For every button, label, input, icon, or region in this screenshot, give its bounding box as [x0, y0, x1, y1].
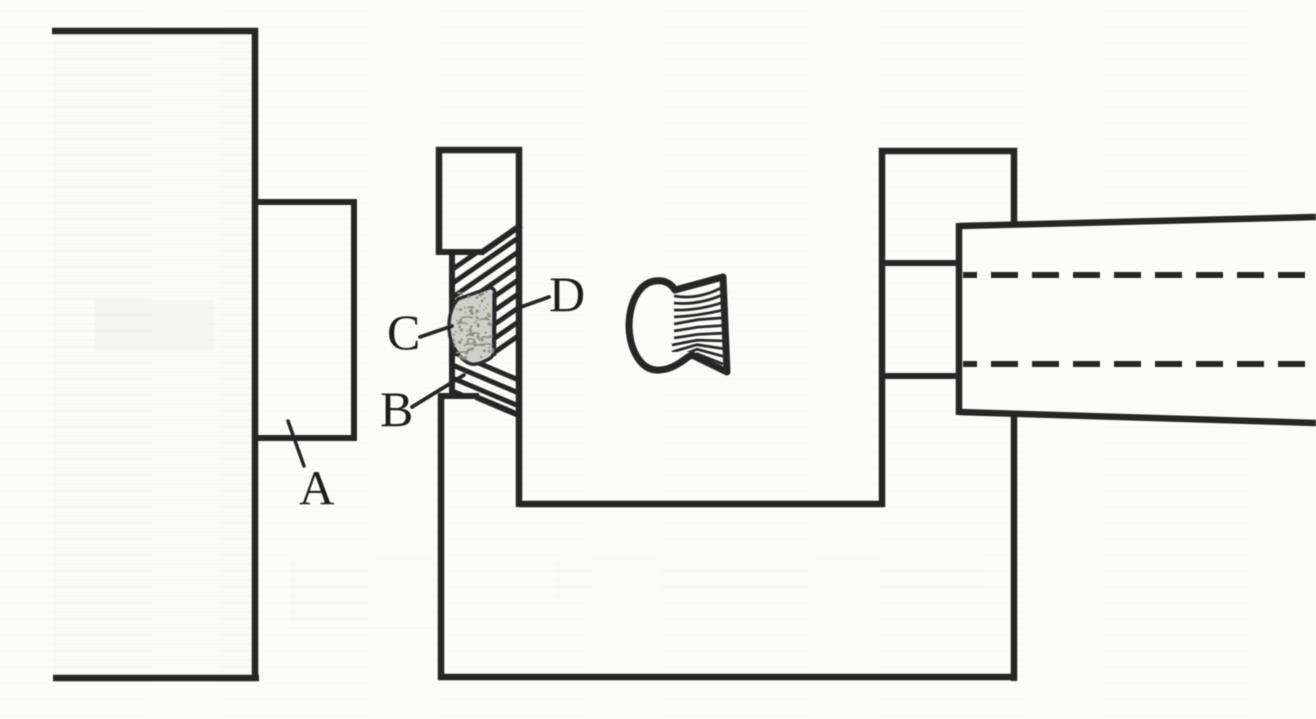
U-shaped frame inner bottom — [519, 501, 885, 508]
hatched wedge B (upper hatch) — [450, 222, 521, 383]
stipple texture — [452, 291, 494, 361]
embedded deformed bullet C — [449, 288, 495, 364]
leader for D — [521, 297, 549, 307]
U-shaped frame outer bottom — [438, 674, 1017, 681]
bullet crushed face — [492, 293, 497, 356]
target plate (middle) — [436, 147, 522, 680]
leader for B — [412, 375, 464, 407]
gun mount plate (right) — [879, 148, 1017, 681]
pellet skirt ribs — [672, 287, 723, 366]
leader for A — [288, 421, 304, 466]
gun barrel — [959, 217, 1316, 423]
svg-text:D: D — [549, 266, 585, 322]
barrel bore dashed line (upper) — [963, 272, 1316, 278]
left wall — [52, 28, 259, 681]
leader for C — [420, 326, 452, 337]
flying pellet (bullet in flight) — [629, 277, 727, 372]
svg-text:A: A — [299, 460, 335, 515]
svg-text:C: C — [387, 304, 420, 360]
block A — [255, 199, 357, 441]
barrel bore dashed line (lower) — [963, 361, 1316, 367]
svg-text:B: B — [380, 381, 413, 437]
hatched wedge B (lower hatch) — [450, 351, 521, 420]
